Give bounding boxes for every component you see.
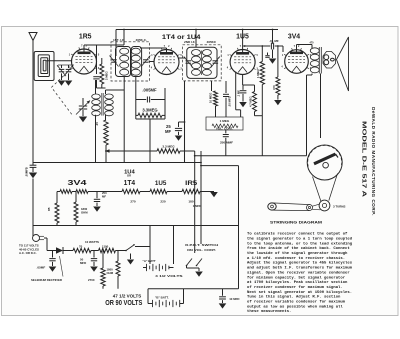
svg-text:180: 180 [188, 200, 193, 204]
svg-text:MFD: MFD [80, 261, 86, 265]
svg-text:OHM: OHM [81, 211, 88, 215]
svg-text:MF: MF [102, 195, 106, 199]
svg-text:.005MF: .005MF [142, 88, 157, 93]
svg-text:10 WATTS: 10 WATTS [85, 240, 99, 244]
svg-text:of receiver condenser for maxi: of receiver condenser for maximum signal… [247, 285, 343, 290]
svg-text:MODEL D-E 517 A: MODEL D-E 517 A [360, 121, 366, 197]
svg-text:10 MEG: 10 MEG [209, 93, 213, 103]
svg-text:1ST- I.F.: 1ST- I.F. [113, 38, 125, 42]
svg-text:70: 70 [79, 244, 83, 248]
svg-text:signal. Open the receiver var: signal. Open the receiver variable conde… [247, 270, 350, 275]
svg-text:.05MFD: .05MFD [25, 167, 29, 177]
svg-text:.1 MF: .1 MF [236, 90, 240, 97]
svg-text:for minimum capacity. Set sig: for minimum capacity. Set signal generat… [247, 275, 346, 280]
svg-text:Tune in this signal. Adjust R: Tune in this signal. Adjust R.F. section [247, 295, 341, 300]
svg-text:.05: .05 [95, 122, 99, 126]
svg-text:3.3 MEG: 3.3 MEG [162, 145, 175, 149]
svg-text:1 MFD: 1 MFD [193, 204, 201, 208]
svg-text:2700: 2700 [88, 278, 95, 282]
svg-text:1U5: 1U5 [155, 180, 167, 187]
svg-text:SELENIUM RECTIFIER: SELENIUM RECTIFIER [31, 278, 63, 282]
svg-text:a 1/10 mfd. condenser to recei: a 1/10 mfd. condenser to receiver chassi… [247, 256, 345, 261]
svg-text:1T4 or 1U4: 1T4 or 1U4 [162, 34, 201, 41]
svg-text:of receiver variable condenser: of receiver variable condenser for maxim… [247, 300, 346, 305]
svg-text:1 MEG: 1 MEG [220, 119, 230, 123]
svg-text:To calibrate receiver connect: To calibrate receiver connect the output… [247, 232, 348, 237]
svg-text:3 TURNS: 3 TURNS [333, 204, 345, 208]
svg-text:3V4: 3V4 [288, 34, 300, 41]
svg-text:the lowside of the signal gene: the lowside of the signal generator thro… [247, 251, 348, 256]
svg-text:IR5: IR5 [185, 180, 197, 187]
svg-text:Adjust the signal generator to: Adjust the signal generator to 455 kiloc… [247, 261, 353, 266]
svg-text:1R5: 1R5 [79, 34, 92, 41]
svg-text:A.C. OR D.C.: A.C. OR D.C. [19, 251, 37, 255]
svg-text:.01 MF: .01 MF [269, 39, 279, 43]
svg-text:250 MMF: 250 MMF [220, 141, 233, 145]
svg-text:DeWALD RADIO MANUFACTURING COR: DeWALD RADIO MANUFACTURING CORP. [371, 107, 376, 216]
svg-text:10 MFD: 10 MFD [229, 297, 239, 301]
svg-text:D.P.D.T. SWITCH: D.P.D.T. SWITCH [185, 243, 219, 247]
svg-text:VOL. CONT.: VOL. CONT. [216, 127, 233, 131]
svg-text:and adjust both I.F. transform: and adjust both I.F. transformers for ma… [247, 266, 353, 271]
svg-text:"B" BATT.: "B" BATT. [155, 295, 169, 299]
svg-text:3V4: 3V4 [68, 178, 87, 187]
svg-text:"A" BATT: "A" BATT [143, 259, 156, 263]
svg-text:MF: MF [165, 129, 171, 134]
svg-text:the signal generator to a 1 tu: the signal generator to a 1 turn loop co… [247, 236, 353, 241]
svg-text:.05 MFD: .05 MFD [228, 96, 232, 107]
svg-text:OR 90 VOLTS: OR 90 VOLTS [105, 298, 142, 307]
svg-text:from the inside of the cabinet: from the inside of the cabinet back. Con… [247, 246, 350, 251]
svg-text:at 1700 kilocycles. Peak osci: at 1700 kilocycles. Peak oscillator sect… [247, 280, 348, 285]
svg-text:OHM: OHM [107, 271, 114, 275]
svg-text:4.7 MEG: 4.7 MEG [248, 96, 252, 107]
svg-text:OR: OR [127, 173, 131, 177]
svg-text:.05MF: .05MF [37, 266, 46, 270]
svg-text:465KC: 465KC [207, 40, 217, 44]
svg-text:465K.C.: 465K.C. [136, 38, 147, 42]
svg-text:470: 470 [272, 85, 276, 90]
svg-text:1100: 1100 [102, 244, 109, 248]
svg-text:220: 220 [160, 200, 165, 204]
svg-text:ON VOL. CONT.: ON VOL. CONT. [187, 248, 216, 252]
svg-text:Next set signal generator at 1: Next set signal generator at 1500 kilocy… [247, 290, 352, 295]
svg-text:1T4: 1T4 [124, 180, 136, 187]
svg-text:STRINGING DIAGRAM: STRINGING DIAGRAM [270, 219, 323, 224]
svg-text:270: 270 [130, 200, 135, 204]
svg-text:85: 85 [47, 207, 51, 211]
svg-text:1 MEG: 1 MEG [256, 69, 260, 78]
svg-text:3.3MEG: 3.3MEG [142, 108, 157, 113]
svg-text:2 MEG: 2 MEG [104, 71, 108, 80]
svg-text:1U5: 1U5 [236, 34, 249, 41]
svg-text:to the loop antenna, or to the: to the loop antenna, or to the lead exte… [247, 241, 353, 246]
svg-text:2ND I.F.: 2ND I.F. [184, 40, 195, 44]
svg-text:4 1/2 VOLTS: 4 1/2 VOLTS [155, 274, 183, 278]
svg-text:output as low as possible when: output as low as possible when making al… [247, 304, 343, 309]
svg-text:these measurements.: these measurements. [247, 309, 291, 314]
